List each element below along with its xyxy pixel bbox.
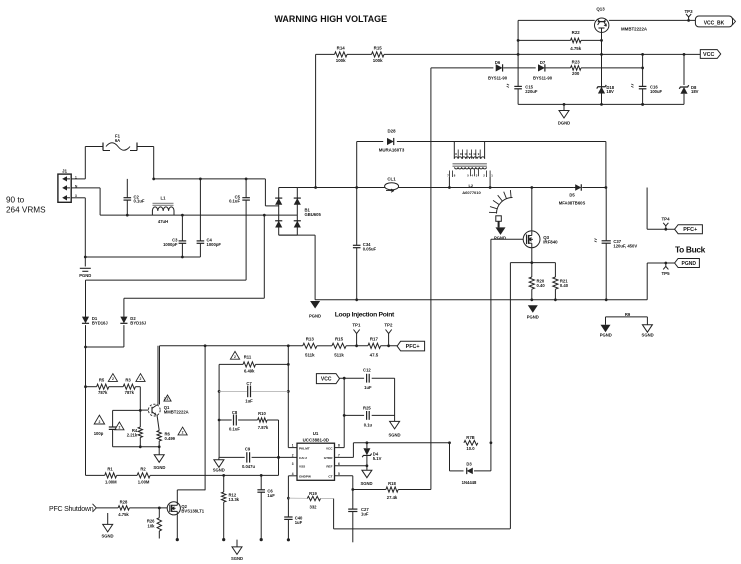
wire	[356, 142, 358, 188]
svg-text:1uF: 1uF	[361, 511, 369, 516]
wire	[399, 186, 574, 189]
svg-text:VSS: VSS	[299, 465, 305, 469]
wire	[156, 404, 159, 406]
svg-text:R14: R14	[337, 46, 346, 51]
svg-text:MMBT2222A: MMBT2222A	[164, 409, 189, 414]
wire	[384, 53, 700, 56]
wire	[601, 32, 603, 104]
svg-text:R17: R17	[370, 337, 379, 342]
resistor R26	[147, 508, 162, 539]
warning triangle	[230, 351, 239, 359]
test point TP5	[661, 262, 670, 277]
svg-text:D7: D7	[540, 60, 546, 65]
capacitor C40	[284, 515, 303, 541]
ground SGND	[642, 325, 654, 338]
svg-text:787k: 787k	[125, 390, 135, 395]
svg-text:C8: C8	[232, 410, 238, 415]
wire	[157, 346, 159, 405]
svg-text:R5: R5	[99, 378, 105, 383]
resistor R9	[606, 312, 648, 317]
wire	[546, 67, 571, 69]
net tag VCC_BK	[695, 16, 735, 27]
resistor R4	[115, 410, 143, 446]
diode D1	[82, 316, 108, 325]
svg-text:CT: CT	[328, 475, 332, 479]
wire	[372, 377, 395, 379]
svg-text:TP4: TP4	[661, 216, 670, 221]
capacitor C3	[163, 215, 186, 257]
svg-text:511k: 511k	[305, 353, 315, 358]
svg-text:0.05uF: 0.05uF	[363, 246, 377, 251]
wire	[503, 67, 536, 69]
wire	[353, 441, 451, 444]
svg-text:R22: R22	[572, 30, 581, 35]
svg-text:R18: R18	[388, 481, 396, 486]
net tag PFC+	[397, 341, 425, 351]
svg-text:SGND: SGND	[101, 534, 113, 539]
svg-text:10: 10	[460, 152, 464, 156]
svg-text:13.3k: 13.3k	[229, 497, 240, 502]
wire	[315, 54, 317, 187]
capacitor C7	[219, 381, 288, 404]
svg-text:18V: 18V	[691, 89, 699, 94]
svg-text:PGND: PGND	[527, 315, 539, 320]
svg-text:0.40: 0.40	[537, 283, 546, 288]
svg-text:U1: U1	[313, 431, 319, 436]
wire	[129, 507, 167, 510]
wire	[372, 414, 395, 416]
svg-text:L1: L1	[161, 196, 167, 201]
wire	[491, 238, 523, 240]
svg-text:SGND: SGND	[642, 333, 654, 338]
wire	[609, 19, 696, 22]
capacitor C8	[219, 410, 240, 431]
wire	[531, 188, 533, 232]
warning triangle	[108, 374, 117, 382]
resistor R28	[118, 500, 129, 517]
wire	[86, 386, 97, 388]
wire	[71, 188, 100, 215]
svg-text:A6077010: A6077010	[462, 190, 481, 195]
svg-text:MMBT2222A: MMBT2222A	[621, 27, 648, 32]
wire	[647, 188, 675, 230]
wire	[71, 178, 85, 180]
capacitor C9	[242, 446, 255, 469]
svg-text:R25: R25	[363, 406, 371, 411]
wire	[265, 179, 278, 206]
test point TP1	[352, 322, 361, 346]
capacitor C4	[197, 179, 222, 257]
resistor R5	[97, 378, 109, 396]
net tag VCC	[316, 374, 339, 384]
svg-text:2.21k: 2.21k	[127, 432, 138, 437]
wire	[430, 68, 432, 490]
wire	[86, 325, 124, 347]
diode D2	[120, 316, 146, 325]
svg-text:SGND: SGND	[213, 467, 225, 472]
wire	[316, 53, 335, 55]
wire	[84, 256, 200, 259]
resistor R12	[222, 475, 240, 541]
svg-text:PGND: PGND	[79, 273, 91, 278]
svg-text:0.1u: 0.1u	[364, 423, 373, 428]
capacitor C11	[94, 410, 117, 446]
wire	[219, 363, 243, 365]
wire	[113, 445, 160, 448]
svg-text:REF: REF	[326, 465, 332, 469]
svg-text:R11: R11	[244, 354, 252, 359]
zener D18	[597, 85, 615, 94]
wire	[287, 346, 290, 448]
svg-text:3: 3	[292, 462, 294, 466]
resistor R1	[105, 467, 117, 485]
svg-text:R19: R19	[309, 491, 317, 496]
wire	[113, 409, 141, 411]
net tag PGND	[675, 259, 700, 268]
test point TP3	[684, 9, 693, 21]
IC U1	[292, 431, 340, 480]
svg-text:7.87k: 7.87k	[258, 425, 269, 430]
svg-text:PGND: PGND	[682, 261, 697, 267]
svg-text:D6: D6	[495, 60, 501, 65]
svg-text:4.75k: 4.75k	[570, 46, 582, 51]
wire	[160, 344, 303, 347]
wire	[334, 528, 511, 530]
wire	[510, 261, 555, 264]
wire	[605, 317, 607, 325]
wire	[518, 103, 684, 106]
svg-text:100uF: 100uF	[650, 89, 663, 94]
wire	[315, 298, 647, 301]
svg-text:C12: C12	[363, 367, 371, 372]
resistor R14	[335, 46, 348, 64]
wire	[450, 441, 493, 471]
wire	[346, 344, 368, 347]
wire	[85, 280, 87, 317]
wire	[287, 476, 290, 517]
wire	[238, 419, 258, 421]
capacitor C37	[594, 188, 637, 300]
wire	[100, 214, 297, 217]
svg-text:12: 12	[469, 152, 473, 156]
capacitor C15	[507, 84, 538, 94]
resistor R20	[529, 263, 545, 300]
wire	[218, 364, 221, 457]
resistor R22	[570, 30, 582, 51]
svg-text:0.1uF: 0.1uF	[229, 199, 240, 204]
wire	[84, 325, 87, 475]
node 90 to 264 VRMS	[6, 195, 46, 214]
ground PGND	[494, 227, 506, 240]
wire	[159, 346, 161, 405]
wire	[158, 441, 161, 448]
svg-text:R9: R9	[625, 312, 631, 317]
svg-text:511k: 511k	[334, 353, 344, 358]
wire	[84, 147, 86, 179]
capacitor C34	[353, 188, 377, 300]
svg-text:MFA08TB60S: MFA08TB60S	[559, 200, 586, 205]
net tag VCC	[700, 50, 720, 59]
wire	[431, 67, 494, 69]
capacitor C5	[229, 179, 250, 280]
node To Buck	[675, 244, 706, 254]
resistor R10	[258, 411, 269, 430]
wire	[335, 443, 354, 458]
svg-text:R3: R3	[125, 378, 131, 383]
svg-text:R15: R15	[374, 46, 383, 51]
svg-text:VCC: VCC	[321, 376, 332, 382]
svg-text:264 VRMS: 264 VRMS	[6, 206, 46, 215]
svg-text:PFC Shutdown: PFC Shutdown	[49, 506, 94, 513]
wire	[398, 489, 431, 491]
svg-text:0.047u: 0.047u	[242, 464, 255, 469]
wire	[150, 474, 278, 477]
svg-text:11: 11	[464, 152, 467, 156]
wire	[347, 53, 372, 55]
svg-text:MURA160T3: MURA160T3	[379, 148, 405, 153]
ground SGND	[101, 513, 113, 539]
transistor Q13	[595, 7, 648, 33]
svg-text:WARNING HIGH VOLTAGE: WARNING HIGH VOLTAGE	[275, 14, 388, 24]
wire	[343, 414, 364, 417]
resistor R15	[332, 337, 346, 358]
svg-text:BYD16J: BYD16J	[92, 321, 108, 326]
transistor Q3	[523, 231, 558, 248]
svg-text:10k: 10k	[148, 523, 156, 528]
svg-text:1uF: 1uF	[267, 493, 275, 498]
wire	[335, 476, 355, 491]
svg-text:D5: D5	[569, 193, 575, 198]
svg-text:CL1: CL1	[387, 176, 396, 181]
svg-text:IRF840: IRF840	[543, 240, 558, 245]
svg-text:47uH: 47uH	[158, 219, 168, 224]
svg-text:0.1uF: 0.1uF	[134, 199, 145, 204]
svg-text:UCC3881-0D: UCC3881-0D	[303, 437, 329, 442]
node Loop Injection Point	[335, 311, 395, 318]
resistor R6	[157, 431, 176, 442]
ground SGND	[153, 447, 165, 470]
resistor R7B	[464, 435, 478, 451]
wire	[71, 198, 85, 257]
current loop CL1	[385, 176, 399, 192]
svg-text:220uF: 220uF	[525, 89, 538, 94]
warning triangle	[178, 427, 187, 435]
ground PGND	[79, 257, 91, 278]
wire	[288, 447, 297, 449]
wire	[357, 141, 384, 143]
ground PGND	[527, 305, 539, 319]
resistor R13	[303, 337, 317, 358]
svg-text:Loop Injection Point: Loop Injection Point	[335, 311, 395, 318]
wire	[683, 94, 685, 105]
svg-text:DGND: DGND	[558, 120, 570, 125]
svg-text:1000pF: 1000pF	[207, 242, 222, 247]
transistor Q2	[167, 490, 205, 515]
ground DGND	[558, 104, 570, 125]
svg-text:90 to: 90 to	[6, 195, 25, 204]
wire	[333, 499, 335, 529]
svg-text:10.0: 10.0	[466, 446, 475, 451]
svg-text:VCC: VCC	[703, 52, 714, 58]
svg-text:BYD16J: BYD16J	[130, 321, 146, 326]
ground SGND	[213, 457, 225, 472]
resistor R11	[243, 354, 256, 373]
diode D5	[559, 184, 606, 205]
net tag PFC Shutdown	[49, 504, 96, 513]
svg-text:R10: R10	[258, 411, 266, 416]
svg-text:D28: D28	[387, 129, 396, 134]
wire	[647, 263, 674, 300]
wire	[518, 39, 570, 41]
wire	[279, 235, 315, 300]
svg-text:2: 2	[182, 431, 184, 435]
wire	[335, 447, 345, 449]
svg-text:120uF, 450V: 120uF, 450V	[613, 243, 637, 248]
node WARNING HIGH VOLTAGE	[275, 14, 388, 24]
svg-text:2: 2	[140, 377, 142, 381]
wire	[343, 378, 345, 447]
svg-text:100k: 100k	[373, 58, 383, 63]
capacitor C16	[631, 84, 662, 94]
wire	[177, 489, 205, 491]
wire	[86, 474, 105, 476]
svg-text:1uF: 1uF	[364, 385, 372, 390]
connector J1	[58, 169, 78, 203]
wire	[297, 186, 385, 189]
svg-text:TP5: TP5	[661, 271, 670, 276]
svg-text:R28: R28	[120, 500, 128, 505]
wire	[219, 456, 245, 458]
svg-text:SGND: SGND	[153, 465, 165, 470]
wire	[157, 415, 159, 431]
svg-text:PGND: PGND	[600, 333, 612, 338]
test point TP2	[384, 322, 393, 346]
svg-text:0.499: 0.499	[165, 436, 176, 441]
capacitor C12	[363, 367, 372, 390]
inductor L1	[152, 196, 174, 224]
wire	[109, 386, 123, 388]
svg-text:13: 13	[473, 152, 477, 156]
svg-text:2: 2	[167, 397, 169, 401]
svg-text:C7: C7	[246, 381, 252, 386]
wire	[152, 178, 265, 181]
svg-text:6.49k: 6.49k	[244, 368, 255, 373]
svg-text:R7B: R7B	[466, 435, 474, 440]
capacitor C2	[124, 179, 145, 215]
svg-text:R15: R15	[335, 337, 344, 342]
svg-text:R23: R23	[572, 60, 581, 65]
svg-text:1.00M: 1.00M	[105, 480, 117, 485]
svg-text:R2: R2	[140, 467, 146, 472]
wire	[490, 239, 492, 442]
resistor R2	[137, 467, 150, 485]
zener D4	[362, 443, 381, 466]
resistor R23	[571, 60, 582, 77]
capacitor C6	[257, 475, 275, 541]
resistor R18	[386, 481, 398, 500]
svg-text:4.75k: 4.75k	[118, 512, 129, 517]
svg-text:1000pF: 1000pF	[163, 242, 178, 247]
ground PGND	[600, 325, 612, 338]
svg-text:200: 200	[572, 71, 580, 76]
wire	[531, 247, 533, 262]
wire	[176, 515, 179, 541]
svg-text:5.1V: 5.1V	[373, 456, 382, 461]
wire	[256, 363, 290, 366]
wire	[517, 20, 520, 104]
svg-text:SGND: SGND	[388, 432, 400, 437]
diode D28	[379, 129, 405, 153]
svg-text:18V: 18V	[606, 89, 614, 94]
wire	[340, 377, 365, 380]
svg-text:BYS11-90: BYS11-90	[533, 75, 553, 80]
wire	[353, 489, 386, 491]
wire	[394, 378, 396, 421]
warning triangle	[136, 374, 145, 382]
wire	[86, 279, 247, 281]
svg-text:1.00M: 1.00M	[138, 480, 150, 485]
current probe loop	[489, 190, 513, 227]
svg-text:GNDPW: GNDPW	[299, 475, 311, 479]
svg-text:Q13: Q13	[596, 7, 605, 12]
wire	[646, 317, 648, 325]
ground SGND	[231, 540, 243, 561]
wire	[267, 419, 278, 421]
svg-text:27.4k: 27.4k	[387, 495, 398, 500]
wire	[381, 344, 398, 347]
svg-text:D3: D3	[466, 461, 472, 466]
svg-text:2: 2	[118, 426, 120, 430]
svg-text:C9: C9	[245, 446, 251, 451]
wire	[581, 67, 644, 70]
wire	[96, 507, 118, 509]
transistor Q1	[140, 395, 188, 416]
resistor R19	[288, 491, 333, 509]
svg-text:To Buck: To Buck	[675, 244, 706, 254]
wire	[204, 346, 206, 491]
bridge rectifier B1	[275, 188, 321, 236]
svg-text:0.40: 0.40	[560, 283, 569, 288]
svg-text:R13: R13	[306, 337, 315, 342]
svg-text:6A: 6A	[115, 138, 120, 143]
svg-text:TP1: TP1	[352, 322, 361, 327]
ground SGND	[360, 466, 372, 486]
wire	[581, 39, 603, 42]
wire	[683, 54, 685, 85]
svg-text:787k: 787k	[98, 390, 108, 395]
wire	[153, 147, 155, 179]
svg-text:BYS11-90: BYS11-90	[488, 75, 508, 80]
wire	[288, 475, 297, 477]
wire	[317, 345, 332, 347]
svg-text:PFC+: PFC+	[406, 344, 420, 350]
zener D8	[679, 85, 698, 94]
svg-text:TP3: TP3	[684, 9, 693, 14]
svg-text:1uF: 1uF	[295, 520, 303, 525]
svg-text:L2: L2	[468, 183, 473, 188]
svg-text:100p: 100p	[94, 431, 104, 436]
wire	[277, 420, 280, 475]
svg-text:TP2: TP2	[384, 322, 393, 327]
diode D3	[450, 461, 491, 485]
ground SGND	[388, 421, 400, 437]
transformer L2	[447, 142, 493, 195]
resistor R3	[123, 378, 135, 396]
svg-text:2: 2	[98, 420, 100, 424]
wire	[605, 142, 608, 189]
svg-text:100k: 100k	[336, 58, 346, 63]
svg-text:J1: J1	[62, 169, 68, 174]
